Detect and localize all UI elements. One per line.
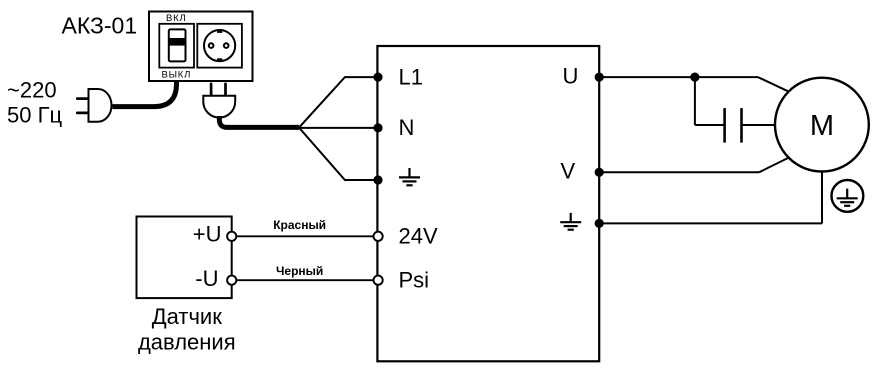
svg-text:Черный: Черный xyxy=(276,264,323,278)
svg-text:L1: L1 xyxy=(399,64,423,89)
svg-text:давления: давления xyxy=(138,330,236,355)
svg-text:50 Гц: 50 Гц xyxy=(7,103,62,128)
svg-text:Датчик: Датчик xyxy=(152,304,222,329)
svg-text:Красный: Красный xyxy=(273,218,326,232)
svg-text:V: V xyxy=(561,159,576,184)
svg-text:~220: ~220 xyxy=(7,77,57,102)
svg-text:U: U xyxy=(563,64,579,89)
svg-text:-U: -U xyxy=(195,266,218,291)
svg-text:24V: 24V xyxy=(399,223,438,248)
svg-text:АКЗ-01: АКЗ-01 xyxy=(62,13,138,39)
svg-text:ВКЛ: ВКЛ xyxy=(166,13,187,24)
svg-text:ВЫКЛ: ВЫКЛ xyxy=(161,69,191,80)
svg-text:+U: +U xyxy=(193,222,222,247)
svg-text:M: M xyxy=(810,110,834,142)
svg-text:N: N xyxy=(399,115,415,140)
svg-text:Psi: Psi xyxy=(399,267,430,292)
